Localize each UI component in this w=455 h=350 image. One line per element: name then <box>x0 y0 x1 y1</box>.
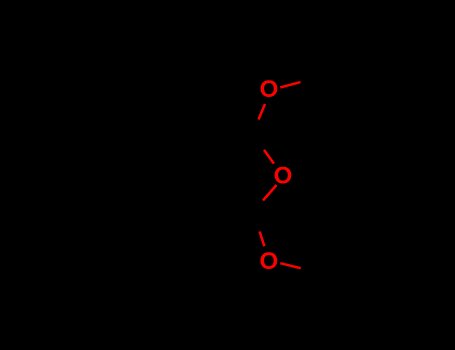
wire O2-C1 bond (red half, up-left from O2) <box>264 150 274 164</box>
wire O1-C1 bond (red half, down-left from O1) <box>259 104 266 120</box>
wire O2-C3 bond (red half, down-left from O2) <box>263 185 277 201</box>
wire O1-CH2 bond (red half, up-right from O1) <box>280 82 300 87</box>
wire O3-CH2 bond (red half, down-right from O3) <box>280 263 300 268</box>
svg-text:O: O <box>260 76 279 103</box>
wire O3-C3 bond (red half, up-left from O3) <box>260 232 265 247</box>
svg-text:O: O <box>259 248 278 275</box>
